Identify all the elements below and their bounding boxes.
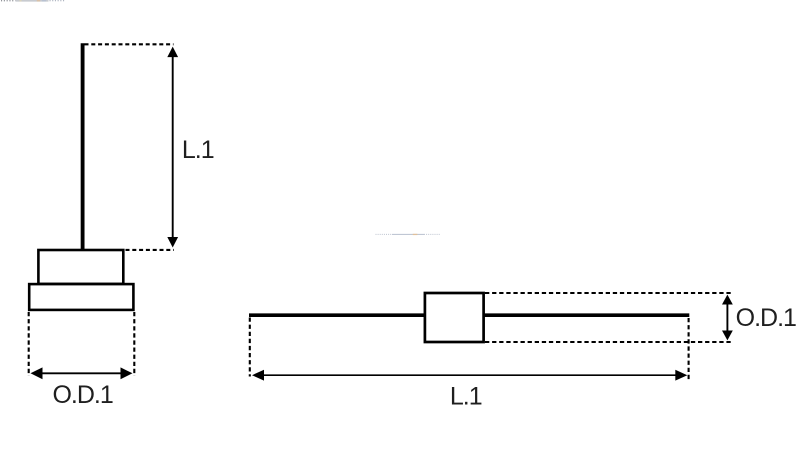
right view: dashed extension line from body bottom edge	[485, 341, 732, 343]
svg-text:O.D.1: O.D.1	[736, 304, 796, 332]
watermark fragment top-left	[1, 0, 65, 2]
right view: right lead wire	[482, 313, 689, 317]
left view: body lower rectangle	[29, 284, 133, 310]
left view: O.D.1 dimension line with arrowheads	[31, 367, 133, 379]
right view: body rectangle	[425, 293, 484, 342]
right view: dashed extension line from body top edge	[485, 292, 732, 294]
right view: O.D.1 dimension line with arrowheads	[722, 295, 733, 341]
watermark fragment center	[376, 234, 441, 235]
left view: lead wire	[81, 43, 85, 250]
svg-text:L.1: L.1	[450, 383, 482, 411]
svg-text:O.D.1: O.D.1	[52, 381, 112, 409]
right view: L.1 dimension line with arrowheads	[252, 370, 687, 381]
right view: left lead wire	[249, 313, 426, 317]
svg-text:L.1: L.1	[182, 136, 214, 164]
right view: dashed projection line right	[688, 318, 690, 379]
left view: dashed projection line right	[133, 312, 135, 376]
left view: body upper rectangle	[38, 250, 123, 284]
left view: dashed extension line from lead top	[85, 43, 174, 45]
left view: dashed projection line left	[28, 312, 30, 376]
left view: dashed extension line from body top edge	[126, 249, 174, 251]
right view: dashed projection line left	[249, 318, 251, 377]
left view: L.1 dimension line with arrowheads	[167, 47, 178, 248]
